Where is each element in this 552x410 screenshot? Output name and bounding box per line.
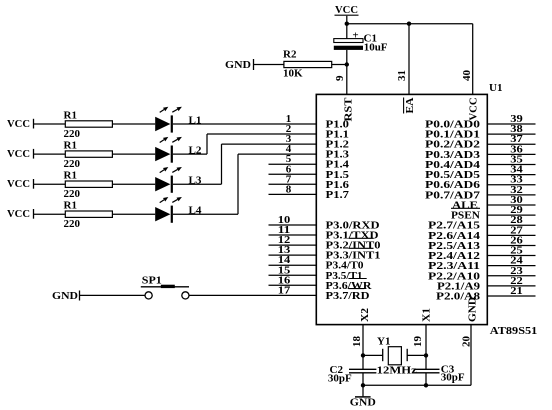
svg-text:20: 20 (461, 336, 473, 348)
svg-text:10K: 10K (283, 68, 303, 80)
pin 35 (487, 153, 535, 165)
svg-text:R1: R1 (64, 140, 77, 152)
svg-text:Y1: Y1 (377, 336, 390, 348)
svg-text:L4: L4 (189, 205, 202, 217)
LED L4 (155, 197, 182, 223)
pin 33 (487, 174, 535, 186)
pin 28 (487, 214, 535, 226)
svg-text:30pF: 30pF (328, 373, 352, 385)
svg-text:18: 18 (351, 336, 363, 348)
pin 32 (487, 184, 535, 196)
svg-text:SP1: SP1 (142, 275, 162, 287)
pin label PSEN (451, 208, 480, 221)
svg-text:X1: X1 (421, 308, 433, 322)
pin 22 (487, 275, 535, 287)
svg-text:VCC: VCC (7, 118, 30, 130)
svg-text:R1: R1 (64, 170, 77, 182)
pin 1 (286, 113, 292, 125)
wire VCC to R1 (row 1) (34, 123, 65, 125)
pin 26 (487, 234, 535, 246)
power VCC (LED row 4) (7, 208, 34, 220)
pin 14 (269, 254, 317, 266)
wire L3 to pin 3 (173, 144, 316, 184)
pin 39 (487, 113, 535, 125)
svg-text:L3: L3 (189, 175, 202, 187)
wire pin 18 X2 (362, 325, 364, 370)
pin 36 (487, 143, 535, 155)
svg-text:8: 8 (286, 183, 292, 195)
LED L2 (155, 137, 182, 163)
svg-text:31: 31 (396, 70, 408, 81)
svg-text:R2: R2 (283, 49, 297, 61)
junction X2 / crystal (361, 353, 365, 357)
pin 25 (487, 245, 535, 257)
svg-text:21: 21 (510, 285, 523, 297)
pin 11 (269, 224, 317, 236)
svg-text:40: 40 (461, 70, 473, 82)
capacitor C2 (349, 369, 376, 373)
pin label P3.2/INT0 (326, 238, 382, 251)
wire GND to R2 (254, 64, 284, 66)
pin 12 (269, 234, 317, 246)
svg-text:EA: EA (404, 97, 416, 113)
pin 34 (487, 164, 535, 176)
wire GND to SP1 (80, 294, 145, 296)
svg-text:P1.7: P1.7 (326, 189, 350, 201)
svg-text:L1: L1 (189, 115, 202, 127)
pin 37 (487, 133, 535, 145)
wire R1 to LED L2 (112, 153, 155, 155)
power VCC (top) (335, 4, 359, 16)
wire RST node to pin 9 (346, 65, 348, 95)
pin 8 (269, 183, 317, 195)
IC U1 AT89S51 (316, 94, 487, 324)
svg-text:VCC: VCC (7, 148, 30, 160)
wire L2 to pin 2 (173, 134, 316, 154)
wire ground rail (363, 384, 426, 386)
svg-text:VCC: VCC (468, 97, 480, 120)
resistor R1 (row 4) (65, 211, 112, 217)
pin 17 (278, 284, 291, 296)
svg-text:VCC: VCC (335, 4, 358, 16)
wire C2 to ground rail (362, 373, 364, 386)
pin 7 (269, 173, 317, 185)
svg-text:P2.0/A8: P2.0/A8 (436, 291, 481, 303)
wire rail to C1 (346, 24, 348, 39)
wire L1 to pin 1 (173, 123, 316, 125)
ground GND (bottom) (350, 385, 376, 408)
pin label EA (active low) (404, 97, 416, 113)
wire C1 to RST node (346, 50, 348, 65)
wire VCC to R1 (row 3) (34, 183, 65, 185)
pin 16 (269, 274, 317, 286)
wire R1 to LED L3 (112, 183, 155, 185)
junction rail / C2 (361, 383, 365, 387)
pin 5 (269, 153, 317, 165)
pin 27 (487, 224, 535, 236)
resistor R1 (row 1) (65, 121, 112, 127)
resistor R1 (row 2) (65, 151, 112, 157)
svg-text:220: 220 (64, 188, 81, 200)
wire pin 20 GND (426, 325, 471, 386)
svg-text:9: 9 (334, 75, 346, 81)
pin label P3.6/WR (326, 279, 373, 292)
svg-text:VCC: VCC (7, 178, 30, 190)
pin 6 (269, 163, 317, 175)
svg-text:17: 17 (278, 284, 291, 296)
wire pin 19 X1 (425, 325, 427, 370)
pin 21 (487, 285, 535, 297)
pin label P3.3/INT1 (326, 248, 381, 261)
svg-text:+: + (352, 30, 358, 42)
wire pin 31 EA (408, 24, 410, 95)
push button SP1 (141, 286, 189, 299)
capacitor C3 (414, 369, 440, 373)
resistor R1 (row 3) (65, 181, 112, 187)
wire VCC to R1 (row 2) (34, 153, 65, 155)
pin 15 (269, 264, 317, 276)
ground GND (R2) (225, 59, 254, 71)
svg-text:AT89S51: AT89S51 (490, 325, 538, 337)
pin 4 (286, 143, 292, 155)
pin 38 (487, 123, 535, 135)
resistor R2 (284, 61, 332, 67)
pin 30 (487, 194, 535, 206)
wire R1 to LED L1 (112, 123, 155, 125)
LED L1 (155, 107, 182, 133)
pin 24 (487, 255, 535, 267)
svg-text:U1: U1 (489, 82, 502, 94)
junction RST node (345, 62, 349, 66)
power VCC (LED row 3) (7, 178, 34, 190)
wire VCC to R1 (row 4) (34, 213, 65, 215)
junction top rail / C1 (345, 22, 349, 26)
pin label P3.7/RD (326, 289, 370, 302)
svg-text:VCC: VCC (7, 208, 30, 220)
wire top rail (347, 23, 473, 25)
junction X1 / crystal (424, 353, 428, 357)
wire R1 to LED L4 (112, 213, 155, 215)
ground GND (SP1) (52, 290, 80, 302)
svg-text:R1: R1 (64, 110, 77, 122)
power VCC (LED row 2) (7, 148, 34, 160)
wire C3 to ground rail (425, 373, 427, 386)
junction rail / C3 (424, 383, 428, 387)
pin 3 (286, 133, 292, 145)
svg-text:220: 220 (64, 158, 81, 170)
svg-text:P3.7/RD: P3.7/RD (326, 290, 370, 302)
svg-text:L2: L2 (189, 145, 202, 157)
svg-text:30pF: 30pF (441, 372, 465, 384)
pin 2 (286, 123, 292, 135)
wire SP1 to pin 17 (189, 294, 316, 296)
wire VCC stub down (346, 16, 348, 24)
junction top rail / EA branch (407, 22, 411, 26)
wire pin 40 VCC (472, 24, 474, 95)
capacitor C1 (334, 30, 363, 50)
svg-text:19: 19 (412, 336, 424, 348)
svg-text:220: 220 (64, 128, 81, 140)
LED L3 (155, 167, 182, 193)
svg-text:X2: X2 (359, 307, 371, 322)
pin 13 (269, 244, 317, 256)
svg-text:220: 220 (64, 218, 81, 230)
pin 10 (269, 214, 317, 226)
pin 23 (487, 265, 535, 277)
svg-text:12MHz: 12MHz (377, 365, 417, 377)
crystal Y1 (363, 347, 426, 365)
svg-text:GND: GND (350, 397, 376, 409)
svg-text:GND: GND (52, 290, 78, 302)
pin 29 (487, 204, 535, 216)
svg-text:GND: GND (225, 59, 251, 71)
svg-text:10uF: 10uF (364, 42, 388, 54)
wire L4 to pin 4 (173, 154, 316, 214)
wire R2 to RST node (332, 64, 347, 66)
svg-text:R1: R1 (64, 200, 77, 212)
power VCC (LED row 1) (7, 118, 34, 130)
